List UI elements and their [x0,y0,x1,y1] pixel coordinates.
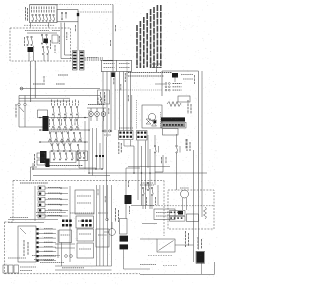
lock dashed box [168,190,214,229]
console dashed box [10,28,71,61]
latch cam box [120,219,128,235]
harness wire 3 [110,72,112,132]
switch row 0 [52,100,79,116]
latch wire down [124,250,151,269]
element box [142,105,162,128]
latch switch box SW1 [30,5,58,23]
label cluster TOD [33,75,68,85]
labels right of element [188,100,191,114]
bundle wire e [149,149,151,209]
label near x76 [75,25,77,32]
relay coil dark [172,73,178,82]
wire y205 [131,185,158,224]
bus wire r1 [40,129,88,131]
thermal switch 2 [176,134,180,190]
indicator L1 [89,108,94,121]
switch row 2 [49,132,81,140]
bus wire F [33,175,110,177]
bus wire r2 [40,141,88,143]
bus wire G [89,172,207,174]
notes title row [128,73,172,77]
small box under terminal [163,129,179,136]
indicator L3 [101,108,106,121]
harness wire 6 [123,72,125,131]
control dashed bottom [5,273,141,275]
junction dots [32,117,135,174]
dotted crosswire [115,89,162,91]
harness wire labels [105,73,129,114]
terminal down wire [201,263,203,275]
latch box right compartment [57,10,79,22]
membrane fanout rows [37,228,57,262]
console wires down [29,46,48,61]
wire labels BK BR [59,32,67,44]
switch row 1 [51,118,79,128]
latch contact dark 2 [120,244,129,249]
wire BK [61,23,73,59]
labels above lights [88,104,105,106]
door switch wires down [19,118,43,127]
wire above lights [87,107,106,109]
dashed line under SW1 [24,24,55,26]
switch contacts in SW1 [32,14,55,21]
relay box [162,71,199,96]
bottom horizontals [55,266,112,270]
control box A [75,190,94,214]
console inner wire [27,32,57,34]
dark cluster 2 [82,220,92,227]
small glyphs left of CN1 [104,130,111,135]
wires below SW1 [31,23,49,28]
dotted wire top [57,3,113,5]
row labels mid grid [50,119,76,127]
connector CN1 [119,131,134,140]
latch rotated label [116,208,119,222]
rotated labels right bus [187,139,190,151]
grid verticals right [85,121,104,176]
lock dashed inner line [150,205,214,207]
connector strip J1 [73,51,78,71]
indicator L2 [95,108,100,121]
wire y166 [125,166,171,218]
right loop vertical [214,262,216,274]
rotated label under CN1 [119,142,122,154]
label band above clusters [36,213,108,216]
vertical wire to plug [111,5,128,77]
terminal strip dark [196,251,205,263]
dashed stub [163,265,178,267]
small box x77 [77,151,88,161]
control box E [77,243,94,258]
lock text box [154,209,175,220]
right bus wire 1 [197,71,199,250]
console right part [52,35,58,53]
resistor squiggle right [204,207,207,219]
door switch terminals [18,96,26,106]
labels mid right [162,139,187,164]
dark connector bar 2 [40,151,47,163]
control dashed left upper [12,181,14,223]
labels left of relay box [150,64,161,72]
harness wire 1 [102,72,104,132]
wires left of boxes [55,230,75,266]
latch circle [104,222,115,235]
control box F [96,229,109,247]
cross wire D [19,100,70,102]
harness wire 4 [114,72,116,131]
vertical from SW1 right edge [77,22,79,51]
control verticals [96,185,111,266]
small box below relay [178,96,190,102]
wire cluster to control [31,167,38,181]
switch row 3 [51,144,79,151]
dark dot in element box [137,100,161,129]
small box right [187,214,199,222]
grid stubs [51,110,89,142]
control pin rows [38,186,68,218]
connector rows br [170,211,186,222]
pin row terminal circles [60,187,61,216]
label above pin rows [20,182,48,184]
harness wire 2 [106,72,108,221]
connector strip J2 [80,51,85,71]
door feed switch B [140,185,154,209]
bus wire r0 [40,117,88,119]
L-wire from CN1 [124,140,134,146]
rotated notes text block [137,5,161,68]
bundle wire c [141,146,143,206]
harness wire 8 [131,72,132,147]
bottom text labels [8,255,156,268]
latch contact dark 1 [120,236,129,242]
harness wire 5 [119,72,121,131]
bundle wire b [137,141,139,201]
control box C [59,230,72,243]
contacts right in SW1 [61,12,67,20]
control dashed right [163,181,165,237]
control dashed top [13,180,164,182]
relay contact rows [165,83,181,91]
plug connector box [101,60,131,71]
top wires bottom-left [8,218,58,223]
door switch body [16,104,25,118]
bottom right solid wire [140,273,215,275]
control dashed left lower [4,222,6,274]
membrane box [18,226,36,262]
grid outline box [50,151,76,163]
door feed labels [141,183,156,205]
console label row [25,30,60,32]
bus wire E [33,161,103,170]
dark connector bar 1 [43,116,49,131]
harness squiggle [85,58,114,61]
fan circle [148,113,155,120]
cross wire C [19,97,70,99]
right bus wire 2 [201,71,203,217]
wire SW1 top right [30,4,58,6]
terminal block [161,122,186,128]
connector CN2 [137,131,148,141]
rotated label left of latch box [26,7,28,21]
label above terminal [198,237,202,249]
bottom small boxes [3,265,36,273]
bowtie contacts [146,119,157,126]
scan noise speckle [1,1,218,285]
small label box right [98,90,110,104]
console cluster 1 [25,36,34,52]
pin rows left verticals [35,186,70,262]
staircase wire [155,155,163,172]
connector block outline [38,110,48,118]
cross wire A [20,87,100,90]
wire right of SW1 [78,11,113,13]
fan rotated label [186,231,189,247]
door feed switch A [142,182,149,209]
control box B [76,216,94,228]
label above CN1 [119,127,133,129]
dark cluster 1 [62,220,72,227]
harness wire 7 [126,72,128,131]
label above squiggle [87,57,98,59]
wire into relay box [155,83,165,85]
bake element bar [161,117,185,121]
bundle wire d [145,141,147,210]
right bus wire 3 [193,150,195,262]
thermal switch 1 [148,135,159,185]
console wire down 1 [30,61,32,102]
dashes under fan box [148,255,172,257]
tiny rotated labels in SW1 [32,7,55,13]
control dashed jog [5,221,14,223]
control box D [77,229,94,241]
dark rect right of lock box [178,211,183,215]
bundle wire a [133,146,135,173]
console wire down 2 [34,61,36,98]
wire BR [65,23,73,55]
text row under grid [45,165,83,167]
cluster mid-left [35,153,50,167]
lock motor circle [180,188,189,210]
switch row 4 [53,153,79,160]
grid row sub-labels [48,129,82,144]
cooling fan box [157,239,194,252]
zigzag element [167,102,181,107]
cross wire B [19,96,102,104]
wire to fan box [140,238,157,240]
console cluster 2 [41,34,50,54]
relay box inner text [181,75,195,85]
